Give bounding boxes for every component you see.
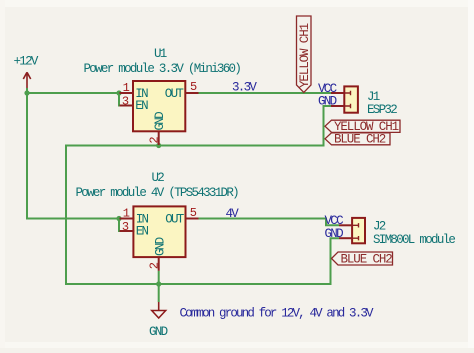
wire 4V net U2 OUT to J2 VCC with jog [199,219,340,226]
junction U2 IN/EN [116,216,121,221]
svg-text:EN: EN [135,99,148,113]
svg-text:3.3V: 3.3V [232,81,257,95]
wire +12V vertical rail [26,88,28,219]
wire U2 GND pin to bottom [158,271,160,284]
wire U1 EN drop [119,93,121,106]
power symbol +12V arrow [23,72,30,88]
U2 pin 1 IN stub [120,218,135,220]
global label BLUE CH2 lower outline [332,252,393,265]
J2 pin 2 socket mark [352,236,358,240]
wire +12V to U1 IN [27,92,120,94]
svg-text:GND: GND [153,237,167,256]
wire 3.3V net U1 OUT to J1 VCC [199,92,332,94]
J2 pin 1 socket mark [352,223,358,227]
J1 pin 2 stub [331,105,344,107]
J1 pin 1 socket mark [344,91,351,95]
svg-text:VCC: VCC [325,214,344,228]
wire GND symbol stem [158,284,160,302]
svg-text:OUT: OUT [165,87,185,101]
svg-text:Power module 4V (TPS54331DR): Power module 4V (TPS54331DR) [76,186,239,200]
global label BLUE CH2 upper outline [325,133,390,145]
svg-text:SIM800L module: SIM800L module [373,233,455,247]
junction +12V branch [24,90,29,95]
J1 pin 1 stub [331,92,344,94]
svg-text:OUT: OUT [165,212,185,226]
svg-text:ESP32: ESP32 [367,103,397,117]
junction U1 GND on wire [156,143,161,148]
U1 pin 1 IN stub [120,92,135,94]
svg-text:U1: U1 [154,47,167,61]
svg-text:U2: U2 [152,171,165,185]
junction U2 GND / ground symbol [156,281,161,286]
svg-text:+12V: +12V [14,55,39,69]
U2 pin 2 GND stub [158,257,160,271]
U2 pin 3 EN stub [120,230,135,232]
svg-text:Power module 3.3V (Mini360): Power module 3.3V (Mini360) [84,62,241,76]
global label YELLOW CH1 left outline [325,120,400,132]
junction U1 IN/EN [116,90,121,95]
U1 pin 5 OUT stub [185,92,198,94]
J1 pin 2 socket mark [344,104,351,108]
svg-text:J2: J2 [373,220,386,234]
svg-text:EN: EN [136,225,149,239]
svg-text:BLUE CH2: BLUE CH2 [341,253,393,267]
regulator U2 body [133,206,185,257]
svg-text:Common ground for 12V, 4V and: Common ground for 12V, 4V and 3.3V [180,307,374,321]
global label YELLOW CH1 vertical outline [297,16,312,93]
svg-text:GND: GND [149,325,168,339]
svg-text:GND: GND [325,227,344,241]
ground symbol stem [158,302,160,311]
wire U2 EN drop [119,219,121,232]
U1 pin 2 GND stub [158,131,160,145]
regulator U1 body [133,81,185,131]
J2 pin 1 stub [339,224,352,226]
connector J2 body [352,218,365,243]
U2 pin 5 OUT stub [186,218,199,220]
svg-text:GND: GND [153,112,167,131]
wire +12V to U2 IN [26,218,120,220]
ground symbol triangle [152,311,166,319]
J2 pin 2 stub [339,237,352,239]
connector J1 body [344,86,358,112]
svg-text:GND: GND [318,95,337,109]
svg-text:BLUE CH2: BLUE CH2 [334,133,386,147]
wire GND net J1 to bottom loop to J2 [66,106,339,284]
svg-text:J1: J1 [367,90,380,104]
U1 pin 3 EN stub [120,105,135,107]
svg-text:YELLOW CH1: YELLOW CH1 [298,23,312,88]
